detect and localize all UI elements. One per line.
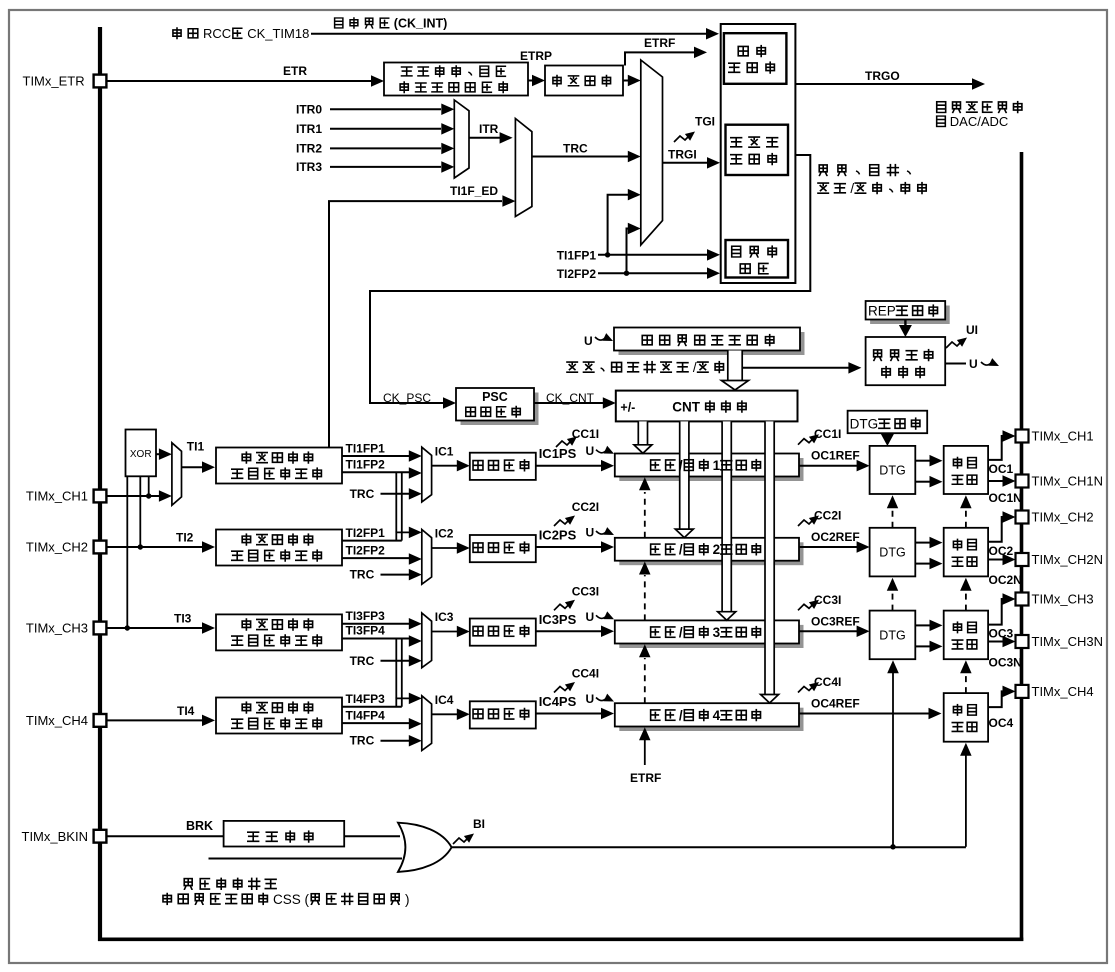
svg-text:ETRF: ETRF bbox=[630, 771, 661, 785]
box polarity selection bbox=[224, 821, 345, 847]
svg-text:/: / bbox=[679, 458, 683, 473]
box capture/compare register 3 bbox=[619, 625, 803, 648]
wire TRC row4 bbox=[381, 740, 410, 742]
mux ITR select bbox=[454, 100, 469, 178]
svg-text:ETRF: ETRF bbox=[644, 36, 675, 50]
box input filter edge detector 1 bbox=[216, 448, 342, 484]
svg-text:TI2FP2: TI2FP2 bbox=[557, 267, 597, 281]
svg-text:ETR: ETR bbox=[283, 64, 307, 78]
box REP register bbox=[870, 306, 950, 325]
pad TIMx_BKIN bbox=[94, 830, 107, 843]
wire BRK bbox=[106, 835, 223, 837]
svg-text:TRC: TRC bbox=[350, 487, 375, 501]
hollow arrow ARR to CNT bbox=[728, 351, 742, 381]
svg-text:IC1: IC1 bbox=[435, 444, 454, 458]
svg-text:TI1FP2: TI1FP2 bbox=[346, 458, 386, 472]
pad TIMx_CH1 bbox=[94, 490, 107, 503]
svg-text:IC2PS: IC2PS bbox=[539, 528, 577, 543]
wire TI4FP4 bbox=[342, 722, 409, 724]
wire TRC row3 bbox=[381, 660, 410, 662]
box input filter ETR bbox=[545, 66, 623, 96]
wire XOR tap CH2 bbox=[139, 476, 141, 547]
svg-text:OC3: OC3 bbox=[989, 627, 1014, 641]
wire TRC row1 bbox=[381, 493, 410, 495]
wire OC3 to pad bbox=[988, 599, 1004, 625]
svg-text:U: U bbox=[586, 526, 595, 540]
wire U to repetition counter bbox=[742, 367, 849, 369]
text capture/compare register 1 bbox=[651, 460, 660, 470]
wire TI1FP2 bbox=[342, 471, 409, 473]
squiggle CC4I right bbox=[798, 686, 814, 693]
svg-text:TI1: TI1 bbox=[187, 439, 205, 453]
svg-text:IC3PS: IC3PS bbox=[539, 612, 577, 627]
squiggle U row4 bbox=[596, 698, 606, 701]
wire IC4 bbox=[432, 713, 458, 715]
svg-text:OC3REF: OC3REF bbox=[811, 614, 860, 628]
arrows DTG1 to output control bbox=[915, 460, 930, 462]
wire TRGI bbox=[663, 162, 709, 164]
box input filter edge detector 4 bbox=[216, 698, 342, 734]
pad TIMx_ETR bbox=[94, 75, 107, 88]
chip boundary bottom line bbox=[98, 937, 1023, 941]
mux TI1 select bbox=[172, 443, 182, 506]
arrow REP to repetition counter bbox=[904, 320, 906, 327]
label from-RCC CK_TIM18 bbox=[173, 28, 181, 39]
wire IC2PS into CCR2 bbox=[536, 546, 601, 548]
wire ITR bbox=[469, 137, 500, 139]
wire ETR bbox=[106, 80, 371, 82]
svg-text:(CK_INT): (CK_INT) bbox=[394, 17, 447, 31]
cross wires TI3FP4/TI4FP3 bbox=[395, 639, 397, 698]
pad TIMx_CH2 bbox=[1016, 511, 1029, 524]
wire ETRP bbox=[528, 80, 534, 82]
svg-text:TIMx_BKIN: TIMx_BKIN bbox=[22, 829, 88, 844]
svg-text:DTG: DTG bbox=[879, 546, 905, 560]
svg-text:OC4REF: OC4REF bbox=[811, 697, 860, 711]
wire U out of repetition counter bbox=[945, 363, 966, 365]
svg-text:/: / bbox=[850, 181, 854, 196]
svg-text:TIMx_CH3N: TIMx_CH3N bbox=[1032, 634, 1104, 649]
wire TI4FP3 bbox=[342, 706, 402, 708]
wire IC1 bbox=[432, 465, 458, 467]
svg-text:TI4FP3: TI4FP3 bbox=[346, 692, 386, 706]
label to other timers bbox=[937, 102, 946, 113]
svg-text:DAC/ADC: DAC/ADC bbox=[950, 114, 1009, 129]
hollow arrows CNT to CCR registers bbox=[638, 421, 647, 444]
pad TIMx_CH3N bbox=[1016, 635, 1029, 648]
wire OC2N to pad bbox=[988, 559, 1004, 561]
svg-text:ETRP: ETRP bbox=[520, 49, 552, 63]
svg-text:CK_PSC: CK_PSC bbox=[383, 391, 431, 405]
wire TI4 bbox=[106, 719, 202, 721]
svg-text:/: / bbox=[679, 625, 683, 640]
squiggle CC1I right bbox=[798, 438, 814, 445]
squiggle U row2 bbox=[596, 531, 606, 534]
svg-text:TIMx_CH2: TIMx_CH2 bbox=[1032, 510, 1094, 525]
svg-text:3: 3 bbox=[713, 625, 721, 640]
svg-text:TI1FP1: TI1FP1 bbox=[557, 249, 597, 263]
svg-text:TRC: TRC bbox=[350, 568, 375, 582]
BI dashed to OC3 bbox=[965, 671, 967, 693]
wire IC3 bbox=[432, 631, 458, 633]
svg-text:U: U bbox=[586, 610, 595, 624]
dashed ETRF chain up through CCRs bbox=[644, 492, 646, 538]
svg-text:): ) bbox=[405, 892, 410, 907]
squiggle CC2I right bbox=[798, 519, 814, 526]
wire ETRF bottom bbox=[644, 738, 646, 765]
box trigger controller bbox=[724, 33, 787, 84]
box DTG 2 bbox=[870, 528, 916, 577]
box prescaler 4 bbox=[470, 701, 536, 728]
box CNT counter bbox=[616, 391, 798, 422]
arrows DTG3 to output control bbox=[915, 624, 930, 626]
wire TRGO bbox=[795, 83, 972, 85]
svg-text:TRC: TRC bbox=[350, 734, 375, 748]
junction TI2FP2 bbox=[624, 271, 629, 276]
pad TIMx_CH3 bbox=[94, 622, 107, 635]
svg-text:OC3N: OC3N bbox=[989, 656, 1022, 670]
mux IC3 select bbox=[422, 613, 432, 668]
squiggle CC2I left bbox=[554, 519, 570, 526]
svg-text:TI4FP4: TI4FP4 bbox=[346, 708, 386, 722]
box prescaler 3 bbox=[470, 619, 536, 646]
svg-text:CK_TIM18: CK_TIM18 bbox=[247, 26, 309, 41]
svg-text:CC1I: CC1I bbox=[572, 427, 599, 441]
pad TIMx_CH2N bbox=[1016, 553, 1029, 566]
wire OC1REF to DTG bbox=[799, 465, 857, 467]
BI dashed to OC1 bbox=[965, 506, 967, 528]
svg-text:OC2REF: OC2REF bbox=[811, 530, 860, 544]
svg-text:CNT: CNT bbox=[672, 400, 700, 415]
pad TIMx_CH2 bbox=[94, 541, 107, 554]
wire clock fail event bbox=[209, 858, 403, 860]
wire ITR1 bbox=[330, 128, 441, 130]
wire IC1PS into CCR1 bbox=[536, 465, 601, 467]
wire IC4PS into CCR4 bbox=[536, 713, 601, 715]
svg-text:ITR2: ITR2 bbox=[296, 141, 322, 155]
svg-text:TI3: TI3 bbox=[174, 612, 192, 626]
svg-text:+/-: +/- bbox=[620, 401, 635, 415]
box DTG 1 bbox=[870, 446, 916, 494]
wire TI2 bbox=[106, 546, 202, 548]
wire polarity to OR gate bbox=[344, 835, 400, 837]
box DTG register bbox=[848, 411, 928, 434]
svg-text:/: / bbox=[679, 542, 683, 557]
wire IC3PS into CCR3 bbox=[536, 630, 601, 632]
svg-text:TI1F_ED: TI1F_ED bbox=[450, 184, 498, 198]
svg-text:TIMx_ETR: TIMx_ETR bbox=[23, 74, 85, 89]
svg-text:TRGO: TRGO bbox=[865, 69, 900, 83]
box auto-reload register bbox=[619, 332, 805, 355]
wire TI1 bbox=[182, 466, 203, 468]
wire TI1FP1 branch to mux bbox=[608, 195, 628, 255]
mux IC4 select bbox=[422, 696, 432, 751]
box trigger-slave-encoder container bbox=[721, 24, 796, 283]
svg-text:U: U bbox=[586, 444, 595, 458]
svg-text:IC4: IC4 bbox=[435, 693, 454, 707]
wire CK_INT bbox=[311, 33, 707, 35]
svg-text:TGI: TGI bbox=[695, 115, 715, 129]
box XOR bbox=[126, 430, 157, 477]
wire TI2FP2 to encoder bbox=[598, 272, 708, 274]
svg-text:OC2: OC2 bbox=[989, 544, 1014, 558]
text capture/compare register 3 bbox=[651, 627, 660, 637]
svg-text:IC1PS: IC1PS bbox=[539, 446, 577, 461]
wire TI2FP2 branch to mux bbox=[627, 229, 630, 274]
box output control 1 bbox=[944, 446, 988, 494]
wire OC4REF long bbox=[799, 713, 929, 715]
junction TI1FP1 bbox=[605, 252, 610, 257]
svg-text:TI2: TI2 bbox=[176, 531, 194, 545]
svg-text:DTG: DTG bbox=[879, 463, 905, 477]
svg-text:TIMx_CH3: TIMx_CH3 bbox=[1032, 592, 1094, 607]
svg-text:CC2I: CC2I bbox=[572, 500, 599, 514]
svg-text:IC2: IC2 bbox=[435, 527, 454, 541]
pad TIMx_CH3 bbox=[1016, 593, 1029, 606]
svg-text:REP: REP bbox=[868, 304, 896, 319]
wire filter to mux bbox=[623, 80, 629, 82]
squiggle U out bbox=[981, 362, 991, 365]
svg-text:TI2FP1: TI2FP1 bbox=[346, 526, 386, 540]
squiggle TGI interrupt bbox=[674, 135, 690, 142]
svg-text:TI2FP2: TI2FP2 bbox=[346, 543, 386, 557]
svg-text:DTG: DTG bbox=[879, 628, 905, 642]
squiggle UI interrupt bbox=[946, 341, 962, 348]
svg-text:TRC: TRC bbox=[563, 142, 588, 156]
svg-text:IC4PS: IC4PS bbox=[539, 694, 577, 709]
svg-text:UI: UI bbox=[966, 323, 978, 337]
BI distribution vertical to DTG3 bbox=[892, 671, 894, 847]
wire TI3FP3 bbox=[342, 623, 409, 625]
svg-text:PSC: PSC bbox=[482, 390, 508, 404]
wire TI2FP1 bbox=[342, 540, 402, 542]
junction break to DTG bbox=[890, 844, 895, 849]
cross wires TI1FP2/TI2FP1 bbox=[395, 473, 397, 533]
wire XOR to TI1 mux bbox=[156, 453, 160, 455]
arrows DTG2 to output control bbox=[915, 542, 930, 544]
wire TI1F_ED bbox=[329, 201, 502, 447]
box slave mode controller bbox=[726, 125, 789, 175]
wire break output bbox=[452, 846, 966, 848]
squiggle CC4I left bbox=[554, 686, 570, 693]
svg-text:/: / bbox=[679, 708, 683, 723]
label clock fail event bbox=[184, 879, 192, 890]
text capture/compare register 4 bbox=[651, 710, 660, 720]
chip boundary right line bbox=[1020, 152, 1024, 941]
wire OC1 to pad bbox=[988, 436, 1004, 460]
box capture/compare register 2 bbox=[619, 542, 803, 565]
mux IC1 select bbox=[422, 447, 432, 502]
OR gate break bbox=[398, 823, 452, 872]
svg-text:TIMx_CH2N: TIMx_CH2N bbox=[1032, 552, 1104, 567]
svg-text:TIMx_CH1: TIMx_CH1 bbox=[1032, 429, 1094, 444]
svg-text:/: / bbox=[693, 360, 697, 375]
wire OC4 to pad bbox=[988, 691, 1004, 707]
svg-text:TIMx_CH2: TIMx_CH2 bbox=[26, 540, 88, 555]
pad TIMx_CH1N bbox=[1016, 475, 1029, 488]
box encoder interface bbox=[726, 240, 789, 278]
svg-text:TIMx_CH4: TIMx_CH4 bbox=[26, 713, 88, 728]
svg-text:CC3I: CC3I bbox=[814, 593, 841, 607]
svg-text:U: U bbox=[586, 692, 595, 706]
BI dashed to DTG1 bbox=[892, 506, 894, 528]
svg-text:CC3I: CC3I bbox=[572, 584, 599, 598]
wire ITR3 bbox=[330, 166, 441, 168]
svg-text:RCC: RCC bbox=[203, 26, 231, 41]
wire OC2 to pad bbox=[988, 517, 1004, 542]
wire TI2FP2 bbox=[342, 557, 409, 559]
wire XOR tap CH3 bbox=[126, 476, 128, 628]
label from clock controller CSS bbox=[163, 893, 171, 904]
BI dashed to OC2 bbox=[965, 589, 967, 611]
wire TRC bbox=[532, 156, 628, 158]
svg-text:U: U bbox=[969, 357, 978, 371]
svg-text:TI4: TI4 bbox=[177, 704, 195, 718]
svg-text:1: 1 bbox=[713, 458, 721, 473]
svg-text:TI1FP1: TI1FP1 bbox=[346, 441, 386, 455]
BI distribution vertical to OC4 bbox=[965, 753, 967, 847]
svg-text:CC4I: CC4I bbox=[572, 667, 599, 681]
svg-text:OC4: OC4 bbox=[989, 716, 1014, 730]
squiggle CC3I left bbox=[554, 603, 570, 610]
label to DAC/ADC bbox=[937, 116, 946, 127]
svg-text:BRK: BRK bbox=[186, 819, 213, 833]
squiggle U into ARR bbox=[595, 337, 605, 340]
svg-text:CC4I: CC4I bbox=[814, 675, 841, 689]
svg-text:IC3: IC3 bbox=[435, 610, 454, 624]
box PSC prescaler bbox=[461, 393, 539, 426]
wire ITR2 bbox=[330, 147, 441, 149]
svg-text:ITR1: ITR1 bbox=[296, 122, 322, 136]
svg-text:TRC: TRC bbox=[350, 654, 375, 668]
box capture/compare register 1 bbox=[619, 458, 803, 481]
svg-text:TIMx_CH4: TIMx_CH4 bbox=[1032, 684, 1094, 699]
box polarity-selection edge-detector prescaler bbox=[384, 63, 528, 96]
label internal clock CK_INT bbox=[335, 18, 343, 28]
label reset enable updown count line1 bbox=[819, 165, 827, 176]
svg-text:CC1I: CC1I bbox=[814, 427, 841, 441]
svg-text:4: 4 bbox=[713, 708, 721, 723]
BI dashed to DTG2 bbox=[892, 589, 894, 611]
box capture/compare register 4 bbox=[619, 708, 803, 731]
svg-text:DTG: DTG bbox=[850, 417, 879, 432]
svg-text:ITR0: ITR0 bbox=[296, 102, 322, 116]
box repetition counter bbox=[866, 337, 946, 385]
wire OC3REF to DTG bbox=[799, 630, 857, 632]
wire TI1FP1 to encoder bbox=[598, 254, 708, 256]
box prescaler 2 bbox=[470, 535, 536, 562]
wire TI1FP1 bbox=[342, 455, 409, 457]
wire OC1N to pad bbox=[988, 480, 1004, 482]
label reset enable updown count line2 bbox=[818, 183, 828, 193]
svg-text:TIMx_CH3: TIMx_CH3 bbox=[26, 621, 88, 636]
wire OC3N to pad bbox=[988, 641, 1004, 643]
chip boundary left line bbox=[98, 27, 102, 941]
wire OC2REF to DTG bbox=[799, 546, 857, 548]
wire ETRF bbox=[625, 52, 695, 65]
squiggle CC3I right bbox=[798, 603, 814, 610]
svg-text:XOR: XOR bbox=[130, 449, 152, 460]
box DTG 3 bbox=[870, 611, 916, 660]
wire ITR0 bbox=[330, 108, 441, 110]
mux TRC select bbox=[515, 119, 532, 217]
box prescaler 1 bbox=[470, 453, 536, 480]
svg-text:CSS (: CSS ( bbox=[273, 892, 310, 907]
arrow DTG register to DTG1 bbox=[886, 433, 888, 438]
text capture/compare register 2 bbox=[651, 544, 660, 554]
box input filter edge detector 3 bbox=[216, 614, 342, 650]
svg-text:ITR: ITR bbox=[479, 122, 499, 136]
svg-text:OC2N: OC2N bbox=[989, 573, 1022, 587]
wire TIMx_CH1 to mux bbox=[106, 495, 160, 497]
svg-text:TI3FP4: TI3FP4 bbox=[346, 624, 386, 638]
wire TI3 bbox=[106, 627, 202, 629]
mux trigger select bbox=[641, 60, 663, 245]
pad TIMx_CH1 bbox=[1016, 430, 1029, 443]
svg-text:TI3FP3: TI3FP3 bbox=[346, 609, 386, 623]
wire TRC row2 bbox=[381, 574, 410, 576]
wire CK_CNT bbox=[534, 402, 603, 404]
box input filter edge detector 2 bbox=[216, 530, 342, 566]
label stop clear updown bbox=[567, 362, 577, 372]
box output control 3 bbox=[944, 611, 988, 660]
squiggle BI bbox=[453, 837, 469, 844]
box output control 2 bbox=[944, 528, 988, 577]
wire XOR tap CH1 bbox=[148, 476, 150, 496]
squiggle CC1I left bbox=[556, 440, 572, 447]
wire slave controller feedback bbox=[370, 155, 810, 403]
svg-text:OC1: OC1 bbox=[989, 462, 1014, 476]
svg-text:TRGI: TRGI bbox=[668, 148, 697, 162]
svg-text:TIMx_CH1: TIMx_CH1 bbox=[26, 489, 88, 504]
svg-text:ITR3: ITR3 bbox=[296, 160, 322, 174]
squiggle U row1 bbox=[596, 450, 606, 453]
svg-text:CC2I: CC2I bbox=[814, 509, 841, 523]
wire IC2 bbox=[432, 547, 458, 549]
svg-text:BI: BI bbox=[473, 817, 485, 831]
squiggle U row3 bbox=[596, 615, 606, 618]
wire TI3FP4 bbox=[342, 638, 409, 640]
svg-text:OC1N: OC1N bbox=[989, 491, 1022, 505]
svg-text:U: U bbox=[584, 334, 593, 348]
svg-text:TIMx_CH1N: TIMx_CH1N bbox=[1032, 474, 1104, 489]
svg-text:2: 2 bbox=[713, 542, 721, 557]
pad TIMx_CH4 bbox=[1016, 685, 1029, 698]
pad TIMx_CH4 bbox=[94, 714, 107, 727]
svg-text:OC1REF: OC1REF bbox=[811, 449, 860, 463]
mux IC2 select bbox=[422, 530, 432, 585]
box output control 4 bbox=[944, 693, 988, 742]
